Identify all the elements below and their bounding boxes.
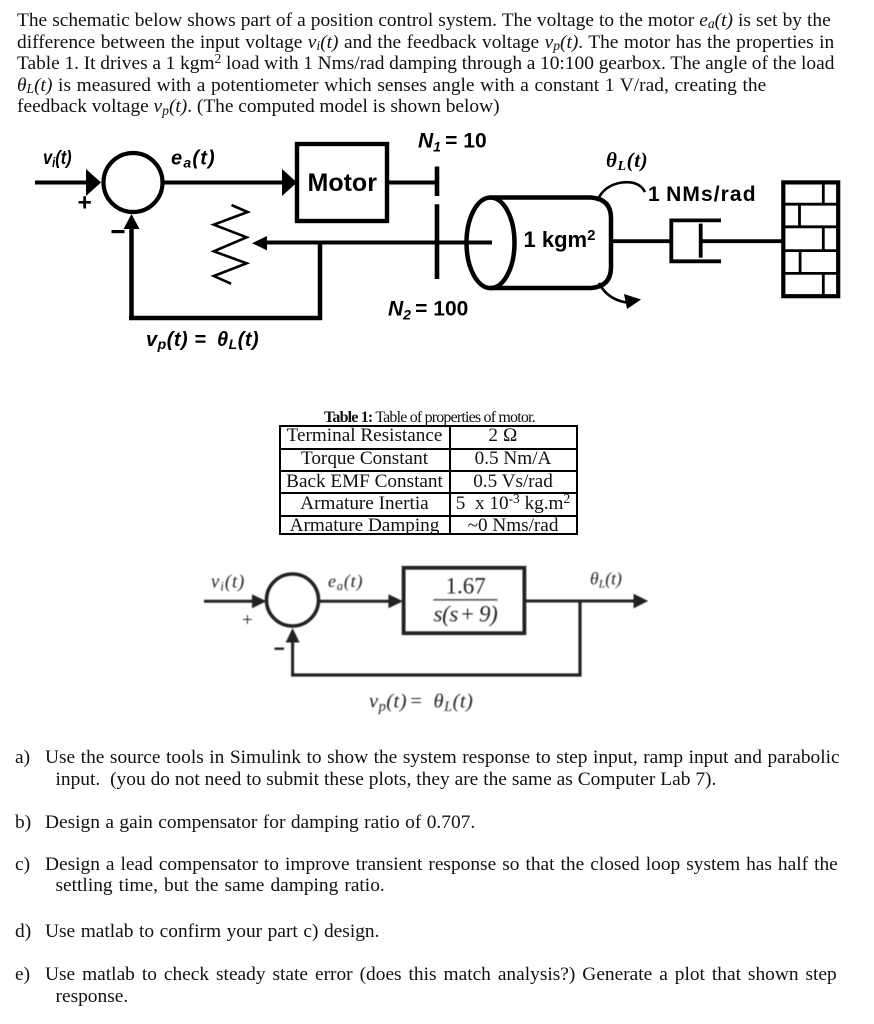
wire plant to output arrow	[525, 594, 648, 609]
node ea(t) label	[171, 148, 216, 171]
svg-text:vi(t): vi(t)	[211, 572, 245, 593]
label N2 = 100	[388, 298, 468, 323]
node ea(t) label (model)	[328, 571, 363, 593]
wire input arrow (model)	[204, 594, 267, 608]
svg-text:θL(t): θL(t)	[606, 148, 648, 174]
wire summing junction to plant block	[318, 594, 403, 608]
label N1 = 10	[418, 130, 487, 155]
svg-text:+: +	[242, 610, 253, 631]
wire damper to wall	[700, 239, 784, 243]
label vp(t) = thetaL(t)	[146, 329, 259, 352]
plus sign	[78, 190, 92, 217]
svg-text:θL(t): θL(t)	[590, 569, 622, 591]
wire load shaft from potentiometer through gear N2 to cylinder	[266, 241, 492, 245]
minus sign	[112, 230, 125, 233]
wire cylinder to damper	[611, 239, 671, 243]
svg-text:1 NMs/rad: 1 NMs/rad	[648, 183, 757, 206]
svg-text:N1 = 10: N1 = 10	[418, 130, 487, 155]
label vp(t) = thetaL(t) (model)	[369, 691, 473, 715]
table caption	[324, 407, 535, 429]
plus sign (model)	[242, 610, 253, 631]
node vi(t) label	[43, 147, 72, 171]
potentiometer zigzag	[214, 205, 248, 284]
wire input arrow into summing junction	[35, 169, 101, 196]
wire feedback bottom horizontal	[129, 316, 322, 321]
svg-text:1.67: 1.67	[446, 574, 486, 599]
items list	[15, 747, 30, 769]
schematic diagram	[0, 130, 874, 370]
svg-text:vp(t) = θL(t): vp(t) = θL(t)	[369, 691, 473, 715]
svg-text:s(s + 9): s(s + 9)	[434, 602, 498, 627]
plant block G(s)	[404, 568, 525, 633]
svg-text:Motor: Motor	[308, 169, 378, 197]
node thetaL(t) output label (model)	[590, 569, 622, 591]
gear N2	[435, 204, 440, 279]
label 1 kgm2	[524, 227, 596, 252]
wire motor shaft to gear N1	[389, 181, 437, 185]
load cylinder body	[490, 198, 611, 289]
svg-text:1 kgm2: 1 kgm2	[524, 227, 596, 252]
wire feedback bottom (model)	[291, 673, 582, 676]
node vi(t) label (model)	[211, 572, 245, 593]
svg-text:+: +	[78, 190, 92, 217]
wall frame	[783, 182, 838, 296]
top paragraph	[17, 10, 831, 32]
load cylinder ellipse	[467, 198, 515, 289]
wall brick rows	[783, 204, 838, 273]
potentiometer arrow	[252, 236, 267, 250]
svg-text:ea(t): ea(t)	[171, 148, 216, 171]
svg-text:vp(t) = θL(t): vp(t) = θL(t)	[146, 329, 259, 352]
summing junction circle	[104, 153, 163, 212]
minus sign (model)	[275, 648, 285, 650]
svg-text:ea(t): ea(t)	[328, 571, 363, 593]
damper D1 piston	[699, 224, 703, 258]
wire summing junction to motor	[165, 169, 298, 196]
plant transfer function 1.67 over s(s+9)	[434, 574, 498, 627]
label thetaL(t)	[606, 148, 648, 174]
svg-text:vi(t): vi(t)	[43, 147, 72, 171]
table of motor properties	[279, 425, 578, 535]
motor label	[308, 169, 378, 197]
label 1 NMs/rad	[648, 183, 757, 206]
rotation arrow bottom	[599, 283, 641, 309]
computed model block diagram	[0, 555, 874, 730]
rotation arc top	[597, 182, 645, 201]
motor box	[297, 144, 387, 221]
wall brick joints	[800, 182, 824, 296]
gear N1	[435, 167, 440, 197]
wire feedback vertical drop	[318, 243, 323, 321]
damper D1 cup	[671, 220, 721, 261]
wire feedback up into summing junction	[124, 214, 140, 320]
wire feedback branch down (model)	[578, 601, 581, 675]
svg-text:N2 = 100: N2 = 100	[388, 298, 468, 323]
wire feedback up into summing junction (model)	[286, 628, 300, 676]
summing junction (model)	[267, 574, 319, 626]
